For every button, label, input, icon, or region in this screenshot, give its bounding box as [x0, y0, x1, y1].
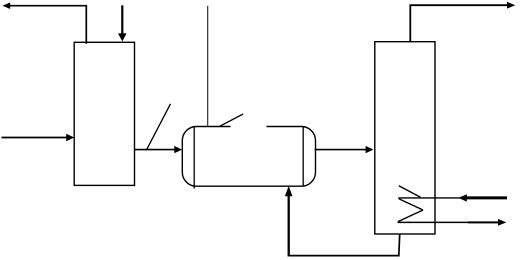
- arrowhead drum outlet: [366, 146, 374, 153]
- wire steam inlet line: [466, 196, 507, 199]
- wire bottoms recycle riser: [288, 196, 290, 257]
- arrowhead condensate right: [498, 219, 506, 226]
- wire bottoms recycle down from T1: [289, 234, 400, 256]
- wire condensate outlet emphasis: [468, 221, 499, 223]
- valve slash S1 on transfer line: [147, 104, 171, 150]
- distillation column T1: [375, 42, 435, 234]
- reboiler coil E1 diagonal upper: [399, 186, 421, 198]
- arrowhead transfer: [174, 146, 182, 153]
- wire vent line above drum: [207, 6, 209, 127]
- wire feed line into V1 left: [2, 137, 67, 139]
- drum left tangent line: [193, 127, 195, 189]
- reboiler coil E1 diagonal lower: [398, 210, 423, 222]
- reboiler coil E1 inlet pass: [398, 197, 459, 199]
- arrowhead top product right: [507, 2, 515, 9]
- arrowhead overhead left: [3, 2, 11, 9]
- drum right tangent line: [302, 127, 304, 187]
- valve slash S2 on drum top: [220, 114, 243, 126]
- absorber column V1: [74, 42, 134, 185]
- reboiler coil E1 diagonal middle: [399, 199, 423, 210]
- wire transfer line V1 to drum: [135, 149, 176, 151]
- wire top product line from T1: [410, 5, 507, 42]
- arrowhead steam inlet left: [458, 194, 467, 201]
- reboiler coil E1 outlet pass: [398, 221, 499, 223]
- drum D1 shell (rounded, gap in top edge): [182, 127, 315, 187]
- arrowhead inlet down: [118, 33, 127, 41]
- wire drum outlet line to column T1: [315, 149, 367, 151]
- arrowhead recycle up into drum: [285, 186, 293, 196]
- wire overhead line from V1 top: [10, 6, 87, 44]
- arrowhead feed: [66, 134, 74, 142]
- wire inlet down into V1 top: [121, 5, 123, 34]
